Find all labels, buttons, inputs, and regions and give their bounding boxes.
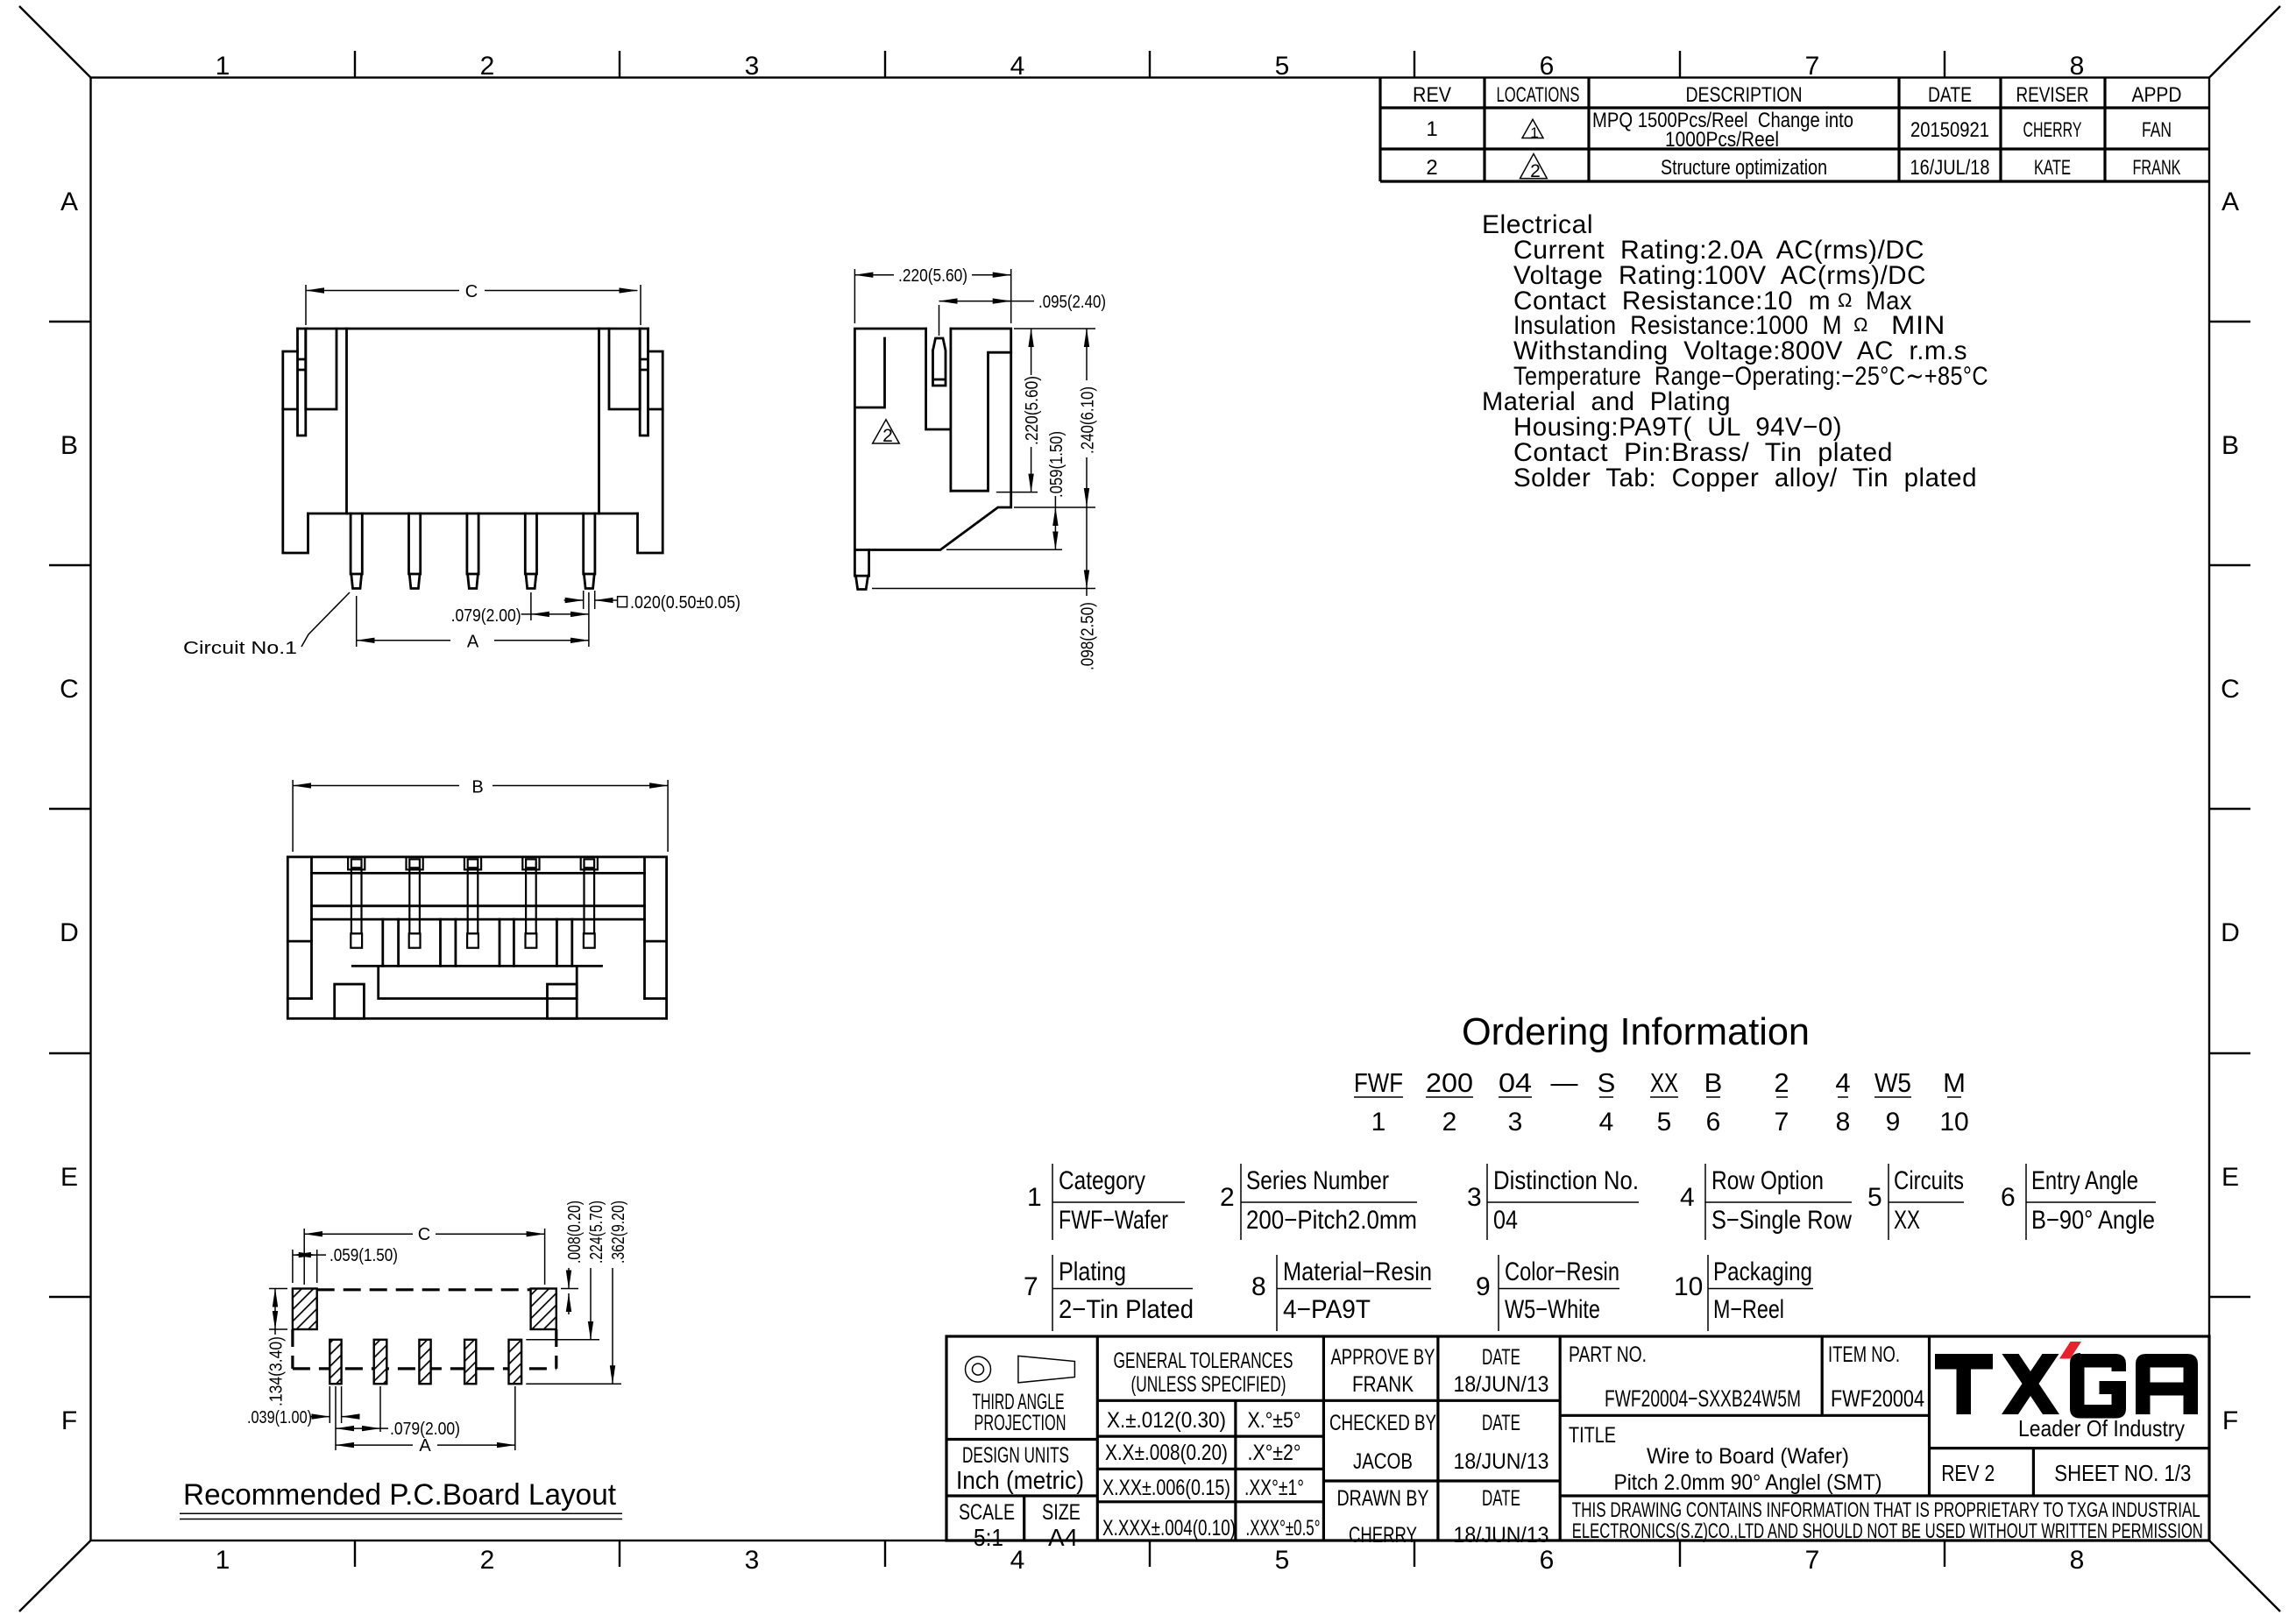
svg-text:8: 8 bbox=[2070, 1546, 2085, 1575]
svg-text:18/JUN/13: 18/JUN/13 bbox=[1454, 1372, 1549, 1397]
svg-text:9: 9 bbox=[1476, 1272, 1491, 1301]
svg-text:FRANK: FRANK bbox=[2133, 156, 2181, 180]
svg-text:Ω: Ω bbox=[1853, 314, 1868, 336]
svg-text:3: 3 bbox=[1508, 1108, 1523, 1137]
svg-text:Ω: Ω bbox=[1838, 289, 1853, 311]
svg-text:04: 04 bbox=[1499, 1067, 1532, 1098]
svg-text:Pitch 2.0mm 90° Anglel (SMT): Pitch 2.0mm 90° Anglel (SMT) bbox=[1614, 1470, 1882, 1495]
svg-text:E: E bbox=[2222, 1163, 2239, 1192]
svg-text:C: C bbox=[465, 282, 478, 301]
svg-text:Solder Tab: Copper alloy/ Tin: Solder Tab: Copper alloy/ Tin plated bbox=[1513, 464, 1977, 492]
svg-text:.XXX°±0.5°: .XXX°±0.5° bbox=[1246, 1516, 1321, 1541]
svg-text:04: 04 bbox=[1493, 1206, 1518, 1235]
svg-text:THIS DRAWING CONTAINS INFORMAT: THIS DRAWING CONTAINS INFORMATION THAT I… bbox=[1572, 1498, 2200, 1522]
svg-text:FWF20004−SXXB24W5M: FWF20004−SXXB24W5M bbox=[1605, 1385, 1801, 1412]
svg-text:2: 2 bbox=[882, 426, 893, 446]
svg-text:8: 8 bbox=[2070, 52, 2085, 81]
svg-text:FAN: FAN bbox=[2142, 118, 2172, 142]
svg-text:M−Reel: M−Reel bbox=[1713, 1295, 1784, 1324]
svg-text:.098(2.50): .098(2.50) bbox=[1079, 602, 1098, 670]
svg-text:ELECTRONICS(S.Z)CO.,LTD AND SH: ELECTRONICS(S.Z)CO.,LTD AND SHOULD NOT B… bbox=[1572, 1519, 2203, 1543]
svg-text:Entry Angle: Entry Angle bbox=[2031, 1166, 2138, 1195]
svg-text:2: 2 bbox=[1220, 1183, 1235, 1212]
svg-text:D: D bbox=[2221, 918, 2240, 947]
svg-text:Packaging: Packaging bbox=[1713, 1257, 1812, 1286]
svg-text:4−PA9T: 4−PA9T bbox=[1283, 1295, 1371, 1324]
svg-text:Recommended P.C.Board Layout: Recommended P.C.Board Layout bbox=[183, 1478, 617, 1512]
svg-text:CHERRY: CHERRY bbox=[1349, 1523, 1417, 1548]
svg-text:GENERAL TOLERANCES: GENERAL TOLERANCES bbox=[1114, 1349, 1293, 1373]
svg-text:1: 1 bbox=[1530, 124, 1538, 141]
svg-text:CHECKED BY: CHECKED BY bbox=[1329, 1411, 1436, 1435]
svg-text:B: B bbox=[2222, 431, 2239, 460]
svg-text:.224(5.70): .224(5.70) bbox=[587, 1201, 606, 1264]
svg-text:D: D bbox=[60, 918, 79, 947]
svg-text:.362(9.20): .362(9.20) bbox=[609, 1201, 628, 1264]
svg-text:CHERRY: CHERRY bbox=[2023, 118, 2082, 142]
svg-text:Series Number: Series Number bbox=[1246, 1166, 1389, 1195]
svg-text:DATE: DATE bbox=[1928, 83, 1972, 107]
svg-text:20150921: 20150921 bbox=[1910, 118, 1989, 142]
svg-text:5: 5 bbox=[1275, 1546, 1290, 1575]
svg-text:Circuits: Circuits bbox=[1894, 1166, 1964, 1195]
svg-text:Color−Resin: Color−Resin bbox=[1505, 1257, 1619, 1286]
svg-text:6: 6 bbox=[2001, 1183, 2016, 1212]
svg-text:Wire to Board (Wafer): Wire to Board (Wafer) bbox=[1647, 1444, 1849, 1469]
svg-text:.220(5.60): .220(5.60) bbox=[898, 266, 967, 286]
svg-text:APPD: APPD bbox=[2132, 83, 2182, 107]
svg-text:C: C bbox=[2221, 675, 2240, 704]
svg-text:W5: W5 bbox=[1874, 1067, 1911, 1098]
svg-text:1: 1 bbox=[1426, 117, 1437, 141]
svg-text:Inch (metric): Inch (metric) bbox=[956, 1467, 1084, 1495]
svg-text:C: C bbox=[418, 1225, 430, 1244]
svg-text:B: B bbox=[60, 431, 78, 460]
svg-text:DRAWN BY: DRAWN BY bbox=[1337, 1486, 1429, 1511]
svg-text:3: 3 bbox=[1467, 1183, 1482, 1212]
svg-text:10: 10 bbox=[1939, 1108, 1968, 1137]
svg-text:5: 5 bbox=[1275, 52, 1290, 81]
svg-text:9: 9 bbox=[1886, 1108, 1901, 1137]
svg-text:S−Single Row: S−Single Row bbox=[1711, 1206, 1852, 1235]
svg-text:REVISER: REVISER bbox=[2016, 83, 2089, 107]
svg-text:1000Pcs/Reel: 1000Pcs/Reel bbox=[1665, 128, 1779, 152]
svg-text:REV 2: REV 2 bbox=[1941, 1460, 1995, 1486]
svg-text:F: F bbox=[2222, 1406, 2238, 1435]
svg-text:.008(0.20): .008(0.20) bbox=[565, 1201, 585, 1264]
svg-text:KATE: KATE bbox=[2034, 156, 2071, 180]
svg-text:1: 1 bbox=[1371, 1108, 1386, 1137]
svg-text:XX: XX bbox=[1650, 1067, 1678, 1098]
svg-text:Distinction No.: Distinction No. bbox=[1493, 1166, 1639, 1195]
svg-text:2: 2 bbox=[1426, 156, 1437, 180]
svg-text:7: 7 bbox=[1805, 52, 1820, 81]
svg-text:DESIGN UNITS: DESIGN UNITS bbox=[962, 1443, 1069, 1468]
svg-text:18/JUN/13: 18/JUN/13 bbox=[1454, 1523, 1549, 1548]
svg-text:7: 7 bbox=[1805, 1546, 1820, 1575]
svg-text:FWF: FWF bbox=[1354, 1067, 1403, 1098]
svg-text:APPROVE BY: APPROVE BY bbox=[1331, 1345, 1435, 1370]
svg-text:2−Tin Plated: 2−Tin Plated bbox=[1059, 1295, 1194, 1324]
svg-text:SIZE: SIZE bbox=[1042, 1500, 1081, 1525]
svg-text:X.±.012(0.30): X.±.012(0.30) bbox=[1107, 1408, 1226, 1433]
svg-text:3: 3 bbox=[745, 1546, 760, 1575]
svg-text:Leader Of Industry: Leader Of Industry bbox=[2018, 1415, 2185, 1441]
svg-text:2: 2 bbox=[480, 52, 495, 81]
svg-text:.240(6.10): .240(6.10) bbox=[1079, 386, 1098, 454]
svg-text:SHEET NO. 1/3: SHEET NO. 1/3 bbox=[2054, 1460, 2191, 1486]
svg-text:8: 8 bbox=[1251, 1272, 1266, 1301]
svg-text:5: 5 bbox=[1867, 1183, 1882, 1212]
svg-text:4: 4 bbox=[1010, 1546, 1025, 1575]
svg-text:LOCATIONS: LOCATIONS bbox=[1497, 83, 1580, 107]
svg-text:S: S bbox=[1598, 1067, 1616, 1098]
svg-text:4: 4 bbox=[1010, 52, 1025, 81]
svg-text:DATE: DATE bbox=[1482, 1486, 1520, 1511]
svg-text:Ordering Information: Ordering Information bbox=[1462, 1010, 1810, 1053]
svg-text:.220(5.60): .220(5.60) bbox=[1023, 376, 1042, 445]
svg-text:A4: A4 bbox=[1048, 1524, 1078, 1551]
svg-text:4: 4 bbox=[1835, 1067, 1850, 1098]
svg-text:4: 4 bbox=[1680, 1183, 1695, 1212]
svg-text:PROJECTION: PROJECTION bbox=[974, 1411, 1067, 1435]
svg-text:B: B bbox=[471, 778, 483, 797]
svg-text:.020(0.50±0.05): .020(0.50±0.05) bbox=[630, 593, 741, 613]
svg-text:—: — bbox=[1551, 1067, 1578, 1098]
svg-text:A: A bbox=[60, 188, 78, 216]
svg-text:.059(1.50): .059(1.50) bbox=[1047, 431, 1067, 498]
svg-text:F: F bbox=[61, 1406, 77, 1435]
svg-text:DATE: DATE bbox=[1482, 1345, 1520, 1370]
svg-text:A: A bbox=[467, 632, 479, 651]
svg-text:200−Pitch2.0mm: 200−Pitch2.0mm bbox=[1246, 1206, 1417, 1235]
svg-text:.XX°±1°: .XX°±1° bbox=[1244, 1476, 1304, 1500]
svg-text:10: 10 bbox=[1674, 1272, 1703, 1301]
svg-text:.079(2.00): .079(2.00) bbox=[451, 606, 521, 626]
svg-text:FRANK: FRANK bbox=[1352, 1372, 1414, 1397]
svg-text:16/JUL/18: 16/JUL/18 bbox=[1910, 156, 1990, 180]
svg-text:1: 1 bbox=[216, 52, 230, 81]
svg-text:FWF−Wafer: FWF−Wafer bbox=[1059, 1206, 1168, 1235]
svg-text:W5−White: W5−White bbox=[1505, 1295, 1600, 1324]
svg-text:A: A bbox=[2222, 188, 2239, 216]
svg-text:FWF20004: FWF20004 bbox=[1831, 1385, 1924, 1412]
svg-text:6: 6 bbox=[1540, 52, 1555, 81]
svg-text:JACOB: JACOB bbox=[1353, 1449, 1413, 1474]
svg-text:SCALE: SCALE bbox=[959, 1500, 1015, 1525]
svg-text:TITLE: TITLE bbox=[1569, 1423, 1616, 1448]
svg-text:4: 4 bbox=[1599, 1108, 1614, 1137]
svg-text:2: 2 bbox=[1442, 1108, 1457, 1137]
svg-text:Material−Resin: Material−Resin bbox=[1283, 1257, 1432, 1286]
svg-text:(UNLESS SPECIFIED): (UNLESS SPECIFIED) bbox=[1131, 1372, 1286, 1397]
svg-text:E: E bbox=[60, 1163, 78, 1192]
svg-text:X.XXX±.004(0.10): X.XXX±.004(0.10) bbox=[1102, 1516, 1236, 1541]
svg-text:ITEM NO.: ITEM NO. bbox=[1828, 1342, 1900, 1367]
svg-text:1: 1 bbox=[1027, 1183, 1042, 1212]
svg-text:.039(1.00): .039(1.00) bbox=[247, 1408, 312, 1427]
svg-text:2: 2 bbox=[480, 1546, 495, 1575]
svg-text:2: 2 bbox=[1530, 161, 1541, 181]
svg-text:PART NO.: PART NO. bbox=[1569, 1342, 1647, 1367]
svg-text:6: 6 bbox=[1540, 1546, 1555, 1575]
svg-text:XX: XX bbox=[1894, 1206, 1920, 1235]
svg-text:5: 5 bbox=[1657, 1108, 1672, 1137]
svg-text:3: 3 bbox=[745, 52, 760, 81]
svg-text:7: 7 bbox=[1024, 1272, 1038, 1301]
svg-text:200: 200 bbox=[1426, 1067, 1473, 1098]
svg-text:DATE: DATE bbox=[1482, 1411, 1520, 1435]
svg-text:REV: REV bbox=[1413, 83, 1451, 107]
svg-text:5:1: 5:1 bbox=[974, 1524, 1003, 1551]
svg-text:18/JUN/13: 18/JUN/13 bbox=[1454, 1449, 1549, 1474]
svg-text:.059(1.50): .059(1.50) bbox=[330, 1246, 398, 1265]
svg-text:DESCRIPTION: DESCRIPTION bbox=[1686, 83, 1803, 107]
svg-text:7: 7 bbox=[1775, 1108, 1789, 1137]
svg-text:X.°±5°: X.°±5° bbox=[1248, 1408, 1301, 1433]
svg-text:B: B bbox=[1704, 1067, 1723, 1098]
svg-text:X.X±.008(0.20): X.X±.008(0.20) bbox=[1105, 1441, 1228, 1465]
svg-text:Structure optimization: Structure optimization bbox=[1661, 156, 1827, 180]
svg-text:.134(3.40): .134(3.40) bbox=[267, 1336, 287, 1406]
svg-text:M: M bbox=[1943, 1067, 1966, 1098]
svg-text:C: C bbox=[60, 675, 79, 704]
svg-text:2: 2 bbox=[1774, 1067, 1789, 1098]
svg-text:8: 8 bbox=[1836, 1108, 1851, 1137]
svg-text:A: A bbox=[419, 1436, 431, 1456]
svg-text:Plating: Plating bbox=[1059, 1257, 1126, 1286]
svg-text:Row Option: Row Option bbox=[1711, 1166, 1824, 1195]
svg-text:.095(2.40): .095(2.40) bbox=[1038, 293, 1106, 312]
svg-text:X.XX±.006(0.15): X.XX±.006(0.15) bbox=[1102, 1476, 1230, 1500]
svg-text:B−90° Angle: B−90° Angle bbox=[2031, 1206, 2155, 1235]
svg-text:6: 6 bbox=[1706, 1108, 1721, 1137]
svg-text:1: 1 bbox=[216, 1546, 230, 1575]
svg-text:Category: Category bbox=[1059, 1166, 1145, 1195]
svg-text:.X°±2°: .X°±2° bbox=[1248, 1441, 1301, 1465]
svg-text:Circuit No.1: Circuit No.1 bbox=[183, 639, 297, 658]
